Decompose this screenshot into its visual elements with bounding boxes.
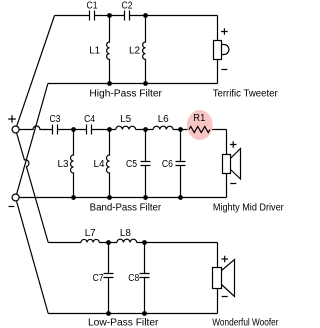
svg-text:C7: C7 <box>93 273 104 284</box>
svg-text:C8: C8 <box>128 273 139 284</box>
highlight ellipse <box>187 110 213 140</box>
svg-text:Terrific Tweeter: Terrific Tweeter <box>213 89 279 100</box>
svg-text:C6: C6 <box>162 159 173 170</box>
node junction L2-bottom <box>143 81 148 86</box>
wire tweeter branch <box>217 16 219 84</box>
wire woofer branch <box>217 243 219 314</box>
wire - terminal to high-pass bottom <box>17 84 48 195</box>
node junction C4-L4 <box>107 127 112 132</box>
svg-text:Wonderful Woofer: Wonderful Woofer <box>212 318 279 328</box>
capacitor C2 <box>122 0 133 20</box>
wire band-pass bottom rail <box>19 197 226 199</box>
svg-text:C4: C4 <box>84 114 95 125</box>
svg-text:L7: L7 <box>85 228 96 239</box>
capacitor C4 <box>84 114 95 135</box>
node junction C2-L2 <box>143 13 148 18</box>
svg-text:C2: C2 <box>122 0 133 11</box>
svg-text:Band-Pass Filter: Band-Pass Filter <box>90 202 162 213</box>
capacitor C6 <box>162 130 186 198</box>
svg-text:L6: L6 <box>158 114 169 125</box>
capacitor C5 <box>126 130 151 198</box>
wire + terminal to high-pass top <box>17 16 55 127</box>
svg-text:C5: C5 <box>126 159 137 170</box>
svg-text:High-Pass Filter: High-Pass Filter <box>89 89 162 100</box>
speaker mid driver <box>223 141 241 183</box>
capacitor C3 <box>50 114 61 135</box>
svg-text:Low-Pass Filter: Low-Pass Filter <box>88 318 159 328</box>
inductor L7 <box>81 228 99 243</box>
capacitor C8 <box>128 243 149 314</box>
node junction C5-bottom <box>143 195 148 200</box>
inductor L6 <box>153 114 173 130</box>
wire band-pass top rail with hop <box>19 126 226 130</box>
node junction L8-C8 <box>142 240 147 245</box>
speaker tweeter <box>214 28 229 69</box>
node junction L5-C5 <box>143 127 148 132</box>
inductor L2 <box>129 16 146 84</box>
speaker woofer <box>213 256 235 297</box>
node - input terminal <box>9 194 20 207</box>
capacitor C1 <box>87 0 98 20</box>
resistor R1 <box>189 113 210 133</box>
inductor L8 <box>117 228 137 243</box>
node junction C8-bottom <box>142 311 147 316</box>
wire high-pass top rail <box>55 15 218 17</box>
node junction L6-C6 <box>178 127 183 132</box>
svg-text:L1: L1 <box>89 46 100 57</box>
node junction L1-bottom <box>107 81 112 86</box>
node junction C1-C2 <box>107 13 112 18</box>
svg-text:L4: L4 <box>94 159 105 170</box>
svg-text:C3: C3 <box>50 114 61 125</box>
wire low-pass bottom rail <box>48 313 217 315</box>
svg-text:L2: L2 <box>129 46 140 57</box>
svg-text:L5: L5 <box>120 114 131 125</box>
wire high-pass bottom rail <box>48 83 218 85</box>
capacitor C7 <box>93 243 114 314</box>
svg-text:R1: R1 <box>193 113 205 124</box>
svg-text:C1: C1 <box>87 0 98 11</box>
inductor L1 <box>89 16 109 84</box>
svg-text:L8: L8 <box>120 228 131 239</box>
wire mid branch <box>226 130 228 198</box>
inductor L4 <box>94 130 110 198</box>
node junction L3-bottom <box>71 195 76 200</box>
wire - terminal to low-pass bottom <box>17 201 49 313</box>
svg-text:Mighty Mid Driver: Mighty Mid Driver <box>213 202 284 213</box>
wire low-pass top rail <box>48 242 217 244</box>
node junction C3-L3 <box>71 127 76 132</box>
node junction L4-bottom <box>107 195 112 200</box>
node + input terminal <box>8 115 19 133</box>
node junction C6-bottom <box>178 195 183 200</box>
node junction L7-C7 <box>106 240 111 245</box>
node junction C7-bottom <box>106 311 111 316</box>
inductor L3 <box>58 130 74 198</box>
svg-text:L3: L3 <box>58 159 69 170</box>
wire + terminal to low-pass top (with hop) <box>17 133 49 243</box>
inductor L5 <box>116 114 136 130</box>
